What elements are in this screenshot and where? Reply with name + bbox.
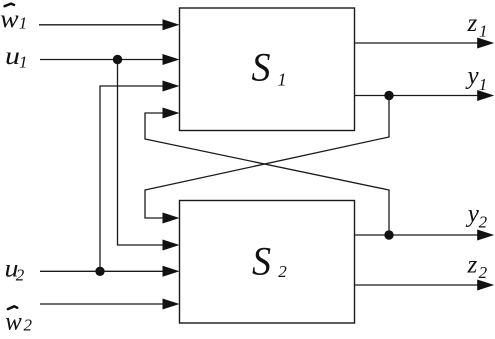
- wire w1: [39, 24, 165, 26]
- svg-text:S: S: [252, 239, 271, 284]
- svg-text:1: 1: [19, 52, 28, 71]
- svg-text:y: y: [465, 201, 480, 228]
- svg-text:1: 1: [479, 75, 488, 94]
- node u1 junction: [113, 55, 122, 64]
- svg-text:z: z: [467, 10, 478, 37]
- wire u1 to S2 input 2: [118, 60, 166, 246]
- wire z2 output: [355, 284, 480, 286]
- svg-text:1: 1: [479, 21, 488, 40]
- block S1: [180, 8, 355, 131]
- svg-text:2: 2: [278, 262, 287, 281]
- arrowhead u1 into S1: [163, 54, 180, 65]
- svg-text:w: w: [0, 6, 19, 33]
- wire y1 output: [355, 95, 480, 97]
- svg-text:y: y: [465, 62, 480, 89]
- wire u1: [40, 59, 165, 61]
- wire u2 to S1 input 3: [100, 86, 165, 271]
- wire u2: [40, 270, 165, 272]
- arrowhead u2 into S2: [163, 266, 180, 277]
- arrowhead z2: [477, 280, 494, 291]
- arrowhead w2 into S2: [163, 299, 180, 310]
- arrowhead y2: [477, 230, 494, 241]
- wire y2 feedback to S1 input 4: [145, 113, 389, 235]
- svg-text:1: 1: [19, 13, 28, 32]
- label z1: [467, 10, 488, 40]
- wire y2 output: [355, 234, 480, 236]
- arrowhead w1 into S1: [163, 19, 180, 30]
- svg-text:2: 2: [479, 213, 488, 232]
- block S2: [180, 201, 355, 324]
- label w1 tilde: [0, 4, 27, 33]
- svg-text:S: S: [252, 45, 271, 90]
- arrowhead u1 into S2: [163, 240, 180, 251]
- svg-text:2: 2: [479, 263, 488, 282]
- arrowhead u2 into S1: [163, 81, 180, 92]
- arrowhead y1: [477, 90, 494, 101]
- arrowhead y1 into S2: [163, 213, 180, 224]
- svg-text:2: 2: [24, 315, 33, 334]
- node y1 junction: [384, 91, 393, 100]
- label y2: [465, 201, 488, 232]
- label z2: [467, 251, 488, 282]
- label w2 tilde: [5, 306, 32, 335]
- label u2: [5, 255, 25, 284]
- label u1: [5, 43, 28, 71]
- svg-text:2: 2: [16, 266, 25, 285]
- svg-text:1: 1: [278, 70, 287, 90]
- svg-text:u: u: [5, 43, 20, 70]
- node u2 junction: [95, 267, 104, 276]
- arrowhead z1: [477, 38, 494, 49]
- svg-text:z: z: [467, 251, 478, 278]
- wire w2: [40, 303, 165, 305]
- node y2 junction: [384, 230, 393, 239]
- svg-text:w: w: [5, 308, 22, 334]
- wire z1 output: [355, 42, 480, 44]
- wire y1 feedback to S2 input 1: [145, 96, 389, 219]
- label y1: [465, 62, 488, 94]
- arrowhead y2 into S1: [163, 108, 180, 119]
